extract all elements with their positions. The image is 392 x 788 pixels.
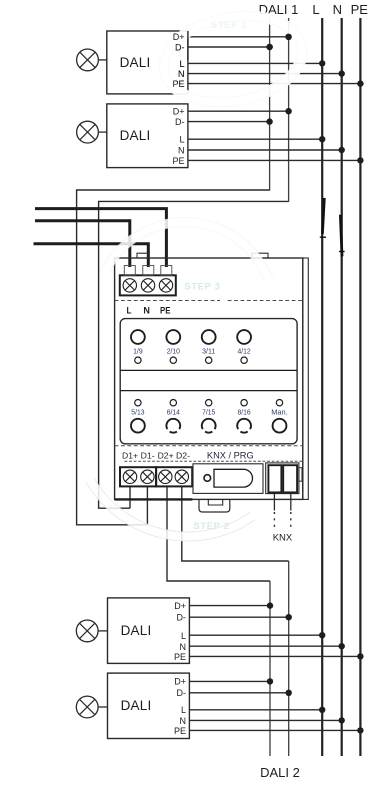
- svg-text:DALI 2: DALI 2: [260, 765, 300, 780]
- programming button slot: [214, 469, 253, 487]
- wire D2- terminal to DALI2 D- line: [182, 486, 289, 561]
- KNX bus connector: [266, 463, 299, 494]
- svg-text:Man.: Man.: [271, 410, 288, 417]
- svg-text:N: N: [180, 716, 187, 726]
- wire DALI2 bus D+ vertical: [269, 581, 271, 756]
- svg-text:KNX / PRG: KNX / PRG: [207, 450, 254, 461]
- wire DALI1 D- to D1- terminal: [77, 190, 270, 525]
- svg-text:D+: D+: [173, 32, 185, 42]
- wire box3 D-: [189, 616, 288, 618]
- LED Man: [276, 400, 282, 406]
- gateway U1 device outline: [115, 258, 303, 499]
- junction box2 N: [339, 147, 345, 153]
- svg-text:KNX: KNX: [273, 533, 293, 544]
- svg-text:7/15: 7/15: [202, 410, 215, 417]
- junction box4 D+: [267, 678, 273, 684]
- svg-text:DALI: DALI: [121, 623, 152, 638]
- watermark ellipse A: [152, 0, 315, 117]
- junction box1 D+: [285, 34, 291, 40]
- wire box2 N: [188, 149, 342, 151]
- svg-text:DALI: DALI: [120, 55, 151, 70]
- svg-text:STEP 1: STEP 1: [211, 20, 247, 31]
- svg-text:5/13: 5/13: [131, 410, 144, 417]
- svg-text:STEP 2: STEP 2: [193, 521, 229, 532]
- junction box1 N: [339, 70, 345, 76]
- terminal tab L: [124, 266, 135, 276]
- wire box1 D+: [188, 36, 289, 38]
- svg-text:L: L: [312, 2, 319, 17]
- button 1/9: [131, 330, 145, 344]
- DIN clip notch: [208, 499, 222, 505]
- svg-text:D2+: D2+: [158, 450, 174, 460]
- wire DALI2 bus D- vertical: [288, 561, 290, 756]
- LED 3/11: [206, 357, 212, 363]
- wire box1 D-: [188, 46, 270, 48]
- screw PE: [159, 279, 172, 292]
- LED 8/16: [241, 400, 247, 406]
- junction box2 D+: [285, 108, 291, 114]
- svg-text:L: L: [179, 135, 184, 145]
- watermark arc B2: [86, 478, 255, 541]
- LED 6/14: [170, 400, 176, 406]
- device bottom thick segment: [115, 498, 193, 500]
- wire mains L vertical: [321, 18, 323, 756]
- LED 2/10: [170, 357, 176, 363]
- wire D2+ terminal to DALI2 D+ line: [167, 486, 270, 581]
- ballast box 1: [107, 31, 188, 94]
- wire box4 D+: [189, 680, 270, 682]
- svg-text:STEP 3: STEP 3: [184, 282, 220, 293]
- KNX terminal right: [283, 465, 297, 492]
- dashed line below panel: [115, 445, 303, 447]
- lamp 4: [76, 696, 98, 718]
- svg-text:6/14: 6/14: [167, 410, 180, 417]
- terminal tab N: [143, 266, 154, 276]
- LED 4/12: [241, 357, 247, 363]
- wire box1 PE: [188, 83, 361, 85]
- svg-text:8/16: 8/16: [238, 410, 251, 417]
- junction box4 D-: [286, 690, 292, 696]
- KNX terminal left: [268, 465, 281, 492]
- programming LED: [204, 475, 211, 482]
- junction box4 PE: [357, 727, 363, 733]
- screw N: [141, 279, 154, 292]
- svg-text:DALI: DALI: [121, 698, 152, 713]
- svg-text:PE: PE: [174, 726, 186, 736]
- svg-text:D1+: D1+: [122, 450, 138, 460]
- svg-text:L: L: [179, 59, 184, 69]
- wire box2 D-: [188, 121, 270, 123]
- wire DALI1 bus D- vertical: [269, 18, 271, 191]
- DIN tab top right: [252, 253, 268, 258]
- break mark on L vertical: [322, 198, 324, 234]
- labels D1+ D1- D2+ D2- KNX / PRG: [122, 450, 254, 461]
- wire KNX - solid: [290, 494, 292, 511]
- dashed seam line: [115, 300, 220, 302]
- junction box3 PE: [357, 653, 363, 659]
- wire box1 N: [188, 73, 342, 75]
- svg-text:N: N: [178, 145, 185, 155]
- box1 right edge redrawn crisp: [187, 31, 189, 60]
- svg-text:PE: PE: [172, 79, 184, 89]
- wire DALI1 bus D+ vertical: [288, 18, 290, 202]
- button 2/10: [166, 330, 180, 344]
- ballast box 4: [108, 673, 190, 738]
- svg-text:N: N: [180, 642, 187, 652]
- lamp 1: [77, 49, 99, 71]
- screw D1-: [141, 470, 154, 483]
- lamp 2: [77, 121, 99, 143]
- ballast box 2: [107, 104, 188, 168]
- junction box1 D-: [266, 44, 272, 50]
- junction box1 L: [319, 60, 325, 66]
- svg-text:D-: D-: [175, 42, 185, 52]
- junction box3 D+: [267, 602, 273, 608]
- junction box2 L: [319, 136, 325, 142]
- junction box2 D-: [266, 118, 272, 124]
- junction box3 N: [339, 643, 345, 649]
- wire mains feed N thick: [34, 244, 149, 267]
- junction box4 L: [319, 707, 325, 713]
- DIN tab top left: [137, 253, 148, 258]
- wire box4 PE: [189, 729, 360, 731]
- label L N PE: [127, 305, 171, 315]
- svg-text:D1-: D1-: [141, 450, 155, 460]
- wire box3 PE: [189, 655, 360, 657]
- svg-text:DALI: DALI: [120, 128, 151, 143]
- wire box4 L: [189, 709, 322, 711]
- wire box4 N: [189, 719, 341, 721]
- divider line 2: [120, 390, 297, 392]
- ballast box 3: [108, 598, 190, 664]
- button 7/15 gapped: [202, 419, 216, 433]
- svg-text:D-: D-: [175, 117, 185, 127]
- button Man: [273, 419, 287, 433]
- screw D1+: [123, 470, 136, 483]
- svg-text:4/12: 4/12: [238, 348, 251, 355]
- screw L: [123, 279, 136, 292]
- junction dots redrawn crisp: [285, 34, 291, 40]
- button 5/13: [131, 419, 145, 433]
- svg-text:3/11: 3/11: [202, 348, 215, 355]
- wire box2 L: [188, 138, 322, 140]
- button 8/16 gapped: [237, 419, 251, 433]
- wire mains feed PE thick: [35, 209, 166, 267]
- terminal block bottom D2: [156, 467, 192, 486]
- svg-text:L: L: [181, 705, 186, 715]
- wire KNX + solid: [273, 494, 275, 511]
- wire box2 PE: [188, 159, 361, 161]
- programming recess: [193, 464, 263, 494]
- svg-text:D-: D-: [177, 612, 187, 622]
- wire box1 L: [188, 62, 322, 64]
- svg-text:D+: D+: [174, 601, 186, 611]
- labels row1: [133, 348, 251, 355]
- box1 pin labels redrawn crisp: [172, 32, 184, 89]
- wire mains N vertical: [341, 18, 343, 756]
- wire box2 D+: [188, 110, 289, 112]
- dashed line above bottom terminals: [125, 460, 303, 462]
- wire D1+ stub: [129, 486, 131, 508]
- LED 5/13: [135, 400, 141, 406]
- junction box3 D-: [286, 614, 292, 620]
- svg-text:PE: PE: [351, 2, 369, 17]
- svg-text:2/10: 2/10: [167, 348, 180, 355]
- button 3/11: [202, 330, 216, 344]
- wire DALI1 D+ to D1+ terminal: [99, 201, 289, 508]
- junction box1 PE: [357, 80, 363, 86]
- svg-text:L: L: [127, 305, 132, 315]
- front panel: [120, 319, 297, 444]
- wire mains PE vertical: [359, 18, 361, 756]
- wire box3 D+: [189, 605, 270, 607]
- screw D2-: [175, 470, 188, 483]
- svg-text:N: N: [143, 305, 150, 315]
- svg-text:L: L: [181, 631, 186, 641]
- svg-text:PE: PE: [174, 652, 186, 662]
- svg-text:D2-: D2-: [176, 450, 190, 460]
- terminal block top (L N PE): [120, 275, 176, 295]
- KNX connector side tab: [299, 468, 302, 482]
- wire KNX + dotted: [273, 512, 275, 530]
- divider line 1: [120, 369, 297, 371]
- watermark arc B1: [100, 218, 273, 283]
- lamp 3: [76, 620, 98, 642]
- terminal tab PE: [161, 266, 172, 276]
- break mark on N vertical: [340, 215, 342, 257]
- button 4/12: [237, 330, 251, 344]
- svg-text:N: N: [178, 69, 185, 79]
- gateway side depth panel: [303, 258, 309, 499]
- wire box3 L: [189, 634, 322, 636]
- terminal block bottom D1: [120, 467, 156, 486]
- svg-text:D+: D+: [173, 107, 185, 117]
- svg-text:N: N: [333, 2, 342, 17]
- svg-text:PE: PE: [172, 156, 184, 166]
- DIN clip bottom: [199, 499, 230, 512]
- junction box3 L: [319, 632, 325, 638]
- LED 1/9: [135, 357, 141, 363]
- svg-text:D-: D-: [177, 688, 187, 698]
- button 6/14 gapped: [166, 419, 180, 433]
- wire KNX - dotted: [290, 512, 292, 530]
- wire D1- stub: [146, 486, 148, 524]
- screw D2+: [159, 470, 172, 483]
- svg-text:D+: D+: [174, 677, 186, 687]
- labels row2: [131, 410, 288, 417]
- LED 7/15: [206, 400, 212, 406]
- wire box4 D-: [189, 692, 288, 694]
- svg-text:1/9: 1/9: [133, 348, 143, 355]
- svg-text:PE: PE: [160, 305, 171, 315]
- junction box4 N: [339, 717, 345, 723]
- wire mains feed L thick: [35, 221, 130, 267]
- junction box2 PE: [357, 157, 363, 163]
- wire box3 N: [189, 645, 341, 647]
